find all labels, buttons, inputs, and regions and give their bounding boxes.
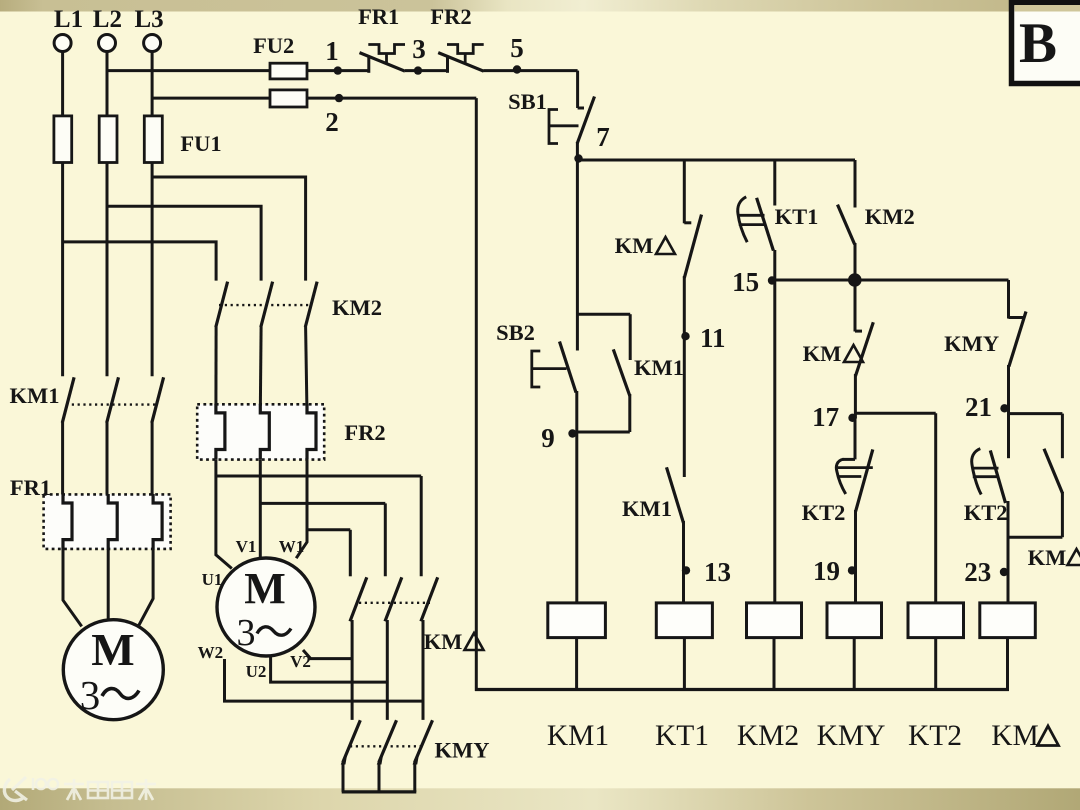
svg-text:W1: W1	[279, 537, 305, 556]
svg-text:KM1: KM1	[547, 720, 609, 752]
svg-text:13: 13	[704, 557, 731, 587]
svg-text:L3: L3	[135, 6, 164, 33]
svg-text:KM1: KM1	[10, 383, 60, 408]
svg-text:FR2: FR2	[430, 4, 471, 29]
svg-text:SB1: SB1	[508, 89, 547, 114]
svg-text:KM2: KM2	[865, 204, 915, 229]
svg-text:KT1: KT1	[775, 204, 819, 229]
svg-text:23: 23	[964, 557, 991, 587]
svg-text:3: 3	[412, 34, 426, 64]
svg-text:9: 9	[541, 423, 555, 453]
svg-text:KMY: KMY	[944, 331, 999, 356]
svg-text:KM1: KM1	[622, 496, 672, 521]
svg-text:KM2: KM2	[737, 720, 799, 752]
svg-text:KT1: KT1	[655, 720, 709, 752]
svg-text:L1: L1	[54, 6, 83, 33]
svg-text:KM: KM	[1028, 545, 1067, 570]
svg-text:3: 3	[237, 612, 256, 654]
svg-text:KM1: KM1	[634, 355, 684, 380]
svg-text:FR1: FR1	[358, 4, 399, 29]
svg-text:KMY: KMY	[435, 738, 490, 763]
svg-text:19: 19	[813, 556, 840, 586]
svg-text:V1: V1	[236, 537, 257, 556]
svg-text:FU2: FU2	[253, 33, 294, 58]
svg-text:FR1: FR1	[10, 475, 51, 500]
svg-text:11: 11	[700, 323, 726, 353]
svg-text:KT2: KT2	[802, 500, 846, 525]
svg-text:15: 15	[732, 267, 759, 297]
svg-text:KM: KM	[615, 233, 654, 258]
svg-text:KM: KM	[424, 629, 463, 654]
svg-text:KMY: KMY	[817, 720, 886, 752]
svg-text:U1: U1	[202, 570, 223, 589]
svg-text:17: 17	[812, 402, 839, 432]
svg-text:M: M	[91, 624, 134, 675]
svg-text:KT2: KT2	[964, 500, 1008, 525]
svg-text:FU1: FU1	[180, 131, 221, 156]
svg-text:U2: U2	[246, 662, 267, 681]
svg-text:KM: KM	[991, 720, 1039, 752]
svg-text:B: B	[1019, 12, 1057, 75]
svg-text:7: 7	[596, 122, 610, 152]
svg-text:3: 3	[80, 672, 101, 718]
svg-text:SB2: SB2	[496, 320, 535, 345]
svg-text:L2: L2	[93, 6, 122, 33]
svg-text:KM2: KM2	[332, 295, 382, 320]
svg-text:2: 2	[325, 107, 339, 137]
svg-text:FR2: FR2	[344, 420, 385, 445]
svg-text:1: 1	[325, 36, 339, 66]
svg-text:M: M	[244, 564, 286, 613]
svg-text:21: 21	[965, 392, 992, 422]
svg-text:5: 5	[510, 33, 524, 63]
svg-text:W2: W2	[198, 643, 224, 662]
svg-text:KT2: KT2	[908, 720, 962, 752]
svg-text:KM: KM	[803, 341, 842, 366]
